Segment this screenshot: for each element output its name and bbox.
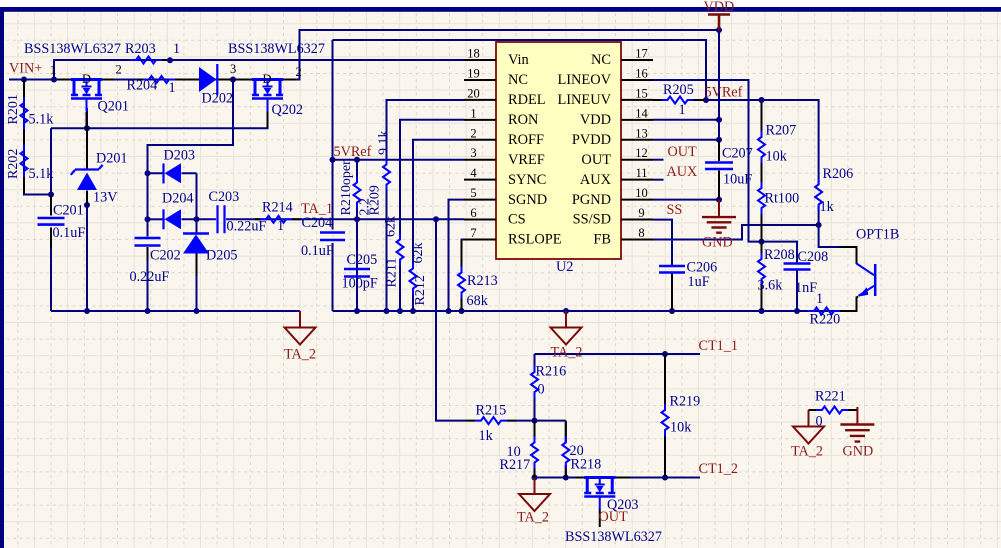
wire pin16 LINEOV to R208 junction xyxy=(653,80,762,242)
resistor R217 xyxy=(500,421,539,477)
wire pin9 SS to C206 xyxy=(653,220,672,311)
wire pin2 ROFF to R212 column xyxy=(413,140,464,311)
diode D202 xyxy=(199,64,233,107)
resistor R216 xyxy=(531,364,566,399)
svg-text:CT1_2: CT1_2 xyxy=(699,461,738,477)
svg-text:2: 2 xyxy=(470,126,476,140)
wire D204 row y=219.3 xyxy=(148,218,164,220)
transistor Q202 xyxy=(236,72,303,128)
ground TA_2 mid xyxy=(551,311,583,361)
resistor R202 xyxy=(6,145,54,194)
node D202/Q202 xyxy=(230,77,236,83)
node D204/D205/C203 xyxy=(194,216,200,222)
U2 pin 11 (AUX) right xyxy=(580,166,653,188)
svg-text:20: 20 xyxy=(467,86,480,100)
svg-text:0: 0 xyxy=(538,382,545,398)
wire pin5 SGND column xyxy=(449,200,465,311)
svg-text:OUT: OUT xyxy=(599,509,628,525)
svg-text:C201: C201 xyxy=(53,203,84,219)
node VREF/5VRef xyxy=(330,157,336,163)
capacitor C201 xyxy=(38,196,86,248)
svg-text:C203: C203 xyxy=(209,189,240,205)
svg-text:TA_2: TA_2 xyxy=(284,347,316,363)
U2 pin 19 (NC) left xyxy=(464,66,528,88)
svg-text:R221: R221 xyxy=(815,389,846,405)
svg-text:Q201: Q201 xyxy=(98,99,130,115)
svg-text:PGND: PGND xyxy=(572,192,611,208)
svg-text:VDD: VDD xyxy=(580,112,611,128)
resistor R211 xyxy=(384,216,404,288)
resistor R213 xyxy=(458,240,498,310)
wire pin7 RSLOPE / R213 column xyxy=(462,240,465,312)
node bus R213 xyxy=(459,308,465,314)
wire Q201 stem xyxy=(86,108,88,128)
svg-text:GND: GND xyxy=(843,444,874,460)
svg-text:16: 16 xyxy=(635,66,648,80)
capacitor C208 xyxy=(784,249,829,296)
svg-text:R210open: R210open xyxy=(339,158,354,216)
svg-text:1uF: 1uF xyxy=(688,274,710,290)
U2 pin 7 (RSLOPE) left xyxy=(464,226,562,248)
svg-text:SS/SD: SS/SD xyxy=(573,212,611,228)
svg-text:1k: 1k xyxy=(479,428,494,444)
svg-text:TA_2: TA_2 xyxy=(551,345,583,361)
svg-text:GND: GND xyxy=(702,235,733,251)
svg-text:D: D xyxy=(263,72,272,86)
svg-text:2: 2 xyxy=(116,63,122,77)
svg-text:3: 3 xyxy=(470,146,476,160)
svg-text:R207: R207 xyxy=(766,123,797,139)
svg-text:11: 11 xyxy=(635,166,647,180)
wire 5VRef row y=100 and R206 column to OPT1B xyxy=(706,100,857,264)
svg-text:D201: D201 xyxy=(96,151,128,167)
node bus D205 xyxy=(194,308,200,314)
svg-text:NC: NC xyxy=(591,52,611,68)
wire R210 column xyxy=(356,160,358,311)
svg-text:0.22uF: 0.22uF xyxy=(227,219,267,235)
wire pin13 PVDD row xyxy=(653,139,719,141)
resistor R207 xyxy=(758,102,796,187)
svg-text:R208: R208 xyxy=(764,247,795,263)
U2 pin 12 (OUT) right xyxy=(581,146,653,168)
ground TA_2 (R221) xyxy=(791,410,824,460)
svg-text:R205: R205 xyxy=(663,82,694,98)
svg-text:BSS138WL6327: BSS138WL6327 xyxy=(565,529,662,545)
svg-text:OUT: OUT xyxy=(668,144,697,160)
svg-text:9: 9 xyxy=(638,206,644,220)
node pin14 VDD xyxy=(716,117,722,123)
capacitor C206 xyxy=(659,260,717,311)
node 5VRef B / R207 top xyxy=(759,97,765,103)
svg-text:15: 15 xyxy=(635,86,648,100)
node bus R211 xyxy=(397,308,403,314)
diode D204 xyxy=(162,191,194,230)
resistor R219 xyxy=(662,355,701,478)
svg-text:VDD: VDD xyxy=(704,0,735,15)
wire R207/Rt100 column xyxy=(761,100,763,242)
wire Q201 gate to Q202 gate y=128.3 xyxy=(51,103,268,128)
wire pin3 VREF row y=160 xyxy=(333,159,465,161)
node PGND/C207/GND xyxy=(716,197,722,203)
svg-text:62k: 62k xyxy=(384,216,399,237)
svg-text:100pF: 100pF xyxy=(342,276,378,292)
transistor Q203 xyxy=(576,478,639,528)
svg-text:Vin: Vin xyxy=(508,52,529,68)
node bus SGND xyxy=(446,308,452,314)
svg-text:R202: R202 xyxy=(6,149,21,179)
svg-text:OPT1B: OPT1B xyxy=(856,227,899,243)
wire D201 column xyxy=(86,128,88,311)
svg-text:5.1k: 5.1k xyxy=(29,166,55,182)
wire pin14 VDD row xyxy=(653,119,719,121)
svg-text:SGND: SGND xyxy=(508,192,547,208)
capacitor C204 xyxy=(301,215,345,259)
svg-text:D205: D205 xyxy=(206,248,238,264)
wire pin20 RDEL to R209 column xyxy=(387,100,465,311)
node 5VRef A xyxy=(703,97,709,103)
node R215/R216/R217 xyxy=(532,418,538,424)
svg-text:R219: R219 xyxy=(670,394,701,410)
svg-text:U2: U2 xyxy=(556,259,573,275)
wire VIN+ rail y=79.5 xyxy=(9,30,719,80)
svg-text:RDEL: RDEL xyxy=(508,92,546,108)
diode D203 xyxy=(164,148,196,184)
capacitor C202 xyxy=(130,237,181,285)
node CT1_1/R219 xyxy=(662,351,668,357)
U2 pin 8 (FB) right xyxy=(593,226,653,248)
resistor R206 xyxy=(815,166,853,215)
wire CS net y=219.3 (C203..R214..pin6) xyxy=(182,218,465,220)
svg-text:5.1k: 5.1k xyxy=(29,112,55,128)
wire CT1_2 y=477.5 xyxy=(535,477,701,479)
svg-text:RSLOPE: RSLOPE xyxy=(508,232,562,248)
node bus D201 xyxy=(84,308,90,314)
capacitor C205 xyxy=(342,252,378,292)
wire pin8 FB to R206 bottom xyxy=(653,225,819,240)
svg-text:ROFF: ROFF xyxy=(508,132,544,148)
svg-text:7: 7 xyxy=(470,226,476,240)
node bus R210 xyxy=(354,308,360,314)
wire D204/D205 column x=196.5 xyxy=(196,173,198,311)
svg-text:12: 12 xyxy=(635,146,648,160)
resistor R201 xyxy=(6,81,54,145)
svg-text:1: 1 xyxy=(169,80,176,96)
svg-text:R203: R203 xyxy=(125,41,156,57)
wire C208 column xyxy=(762,242,798,311)
wire CS column down to R215 xyxy=(436,219,466,420)
svg-text:4: 4 xyxy=(470,166,477,180)
svg-text:1nF: 1nF xyxy=(795,280,817,296)
power VDD xyxy=(704,0,735,30)
svg-text:SS: SS xyxy=(667,202,683,218)
node bus R208 xyxy=(759,308,765,314)
svg-text:TA_2: TA_2 xyxy=(517,510,549,526)
resistor R215 xyxy=(466,403,516,445)
op-amp / controller U2 body xyxy=(496,42,621,275)
node bus C206 xyxy=(669,308,675,314)
svg-text:5VRef: 5VRef xyxy=(334,144,372,160)
U2 pin 2 (ROFF) left xyxy=(464,126,544,148)
svg-text:R206: R206 xyxy=(823,166,854,182)
svg-text:D: D xyxy=(82,72,91,86)
resistor R208 xyxy=(758,242,795,310)
U2 pin 10 (PGND) right xyxy=(572,186,653,208)
node CT1_2/R219 xyxy=(662,475,668,481)
capacitor C207 xyxy=(705,141,753,198)
node VDD top xyxy=(716,27,722,33)
resistor R204 xyxy=(127,76,200,96)
svg-text:5: 5 xyxy=(470,186,476,200)
svg-text:1: 1 xyxy=(50,63,56,77)
svg-text:2: 2 xyxy=(296,65,302,79)
wire branch to R203 / pin18 y=60 xyxy=(54,60,464,80)
U2 pin 5 (SGND) left xyxy=(464,186,547,208)
node D204 left xyxy=(145,216,151,222)
node FB/R206/OPT1B xyxy=(816,222,822,228)
svg-text:13: 13 xyxy=(635,126,648,140)
U2 pin 4 (SYNC) left xyxy=(464,166,546,188)
svg-text:OUT: OUT xyxy=(581,152,611,168)
svg-text:1: 1 xyxy=(470,106,476,120)
node R210 top xyxy=(354,157,360,163)
svg-text:68k: 68k xyxy=(467,293,489,309)
ground GND (R221) xyxy=(840,407,874,460)
svg-text:LINEOV: LINEOV xyxy=(557,72,611,88)
wire R218 column xyxy=(565,421,567,478)
svg-text:19: 19 xyxy=(467,66,480,80)
wire pin11 AUX stub xyxy=(653,179,664,181)
node bus C202 xyxy=(145,308,151,314)
svg-text:R212: R212 xyxy=(413,275,428,305)
svg-text:R215: R215 xyxy=(476,403,507,419)
svg-text:CT1_1: CT1_1 xyxy=(699,338,738,354)
svg-text:1: 1 xyxy=(679,102,686,118)
svg-text:D202: D202 xyxy=(202,91,234,107)
svg-text:1: 1 xyxy=(277,218,284,234)
svg-text:BSS138WL6327: BSS138WL6327 xyxy=(24,41,121,57)
svg-text:R209: R209 xyxy=(368,185,383,215)
svg-text:D203: D203 xyxy=(164,148,196,164)
svg-text:R216: R216 xyxy=(536,364,567,380)
node bus R209 xyxy=(384,308,390,314)
svg-text:TA_1: TA_1 xyxy=(301,201,333,217)
optocoupler OPT1B xyxy=(839,227,899,312)
wire R208 column xyxy=(761,242,763,311)
node D203 left xyxy=(145,170,151,176)
svg-text:0.1uF: 0.1uF xyxy=(301,243,334,259)
transistor Q201 xyxy=(58,72,129,128)
wire R217 column xyxy=(534,421,536,478)
svg-text:AUX: AUX xyxy=(580,172,612,188)
svg-text:14: 14 xyxy=(635,106,648,120)
wire R219 column xyxy=(664,354,666,478)
wire C201 column xyxy=(50,128,52,311)
wire pin12 OUT stub xyxy=(653,159,664,161)
resistor R221 xyxy=(809,389,858,430)
svg-text:FB: FB xyxy=(593,232,611,248)
svg-text:1: 1 xyxy=(816,291,823,307)
svg-text:R204: R204 xyxy=(127,78,158,94)
svg-text:LINEUV: LINEUV xyxy=(557,92,611,108)
svg-text:VIN+: VIN+ xyxy=(9,61,42,77)
svg-text:RON: RON xyxy=(508,112,539,128)
svg-text:R213: R213 xyxy=(467,273,498,289)
svg-text:C202: C202 xyxy=(150,248,181,264)
svg-text:R211: R211 xyxy=(385,258,400,288)
capacitor C203 xyxy=(209,189,267,235)
svg-text:Rt100: Rt100 xyxy=(765,191,800,207)
svg-text:PVDD: PVDD xyxy=(572,132,611,148)
node CS column xyxy=(433,216,439,222)
svg-text:0.22uF: 0.22uF xyxy=(130,269,170,285)
wire pin1 RON to R211 column xyxy=(400,120,464,311)
svg-text:20: 20 xyxy=(570,443,584,459)
svg-text:17: 17 xyxy=(635,47,648,61)
svg-text:R201: R201 xyxy=(6,94,21,124)
U2 pin 20 (RDEL) left xyxy=(464,86,546,108)
node Rt100/R208/C208 xyxy=(759,239,765,245)
wire R201/R202 column xyxy=(24,80,51,195)
resistor Rt100 xyxy=(758,182,799,240)
wire left ground bus y=311 xyxy=(51,310,300,312)
svg-text:8: 8 xyxy=(638,226,644,240)
wire CT1_1 y=354 xyxy=(535,353,701,355)
sheet border left xyxy=(0,7,4,548)
svg-text:10uF: 10uF xyxy=(723,172,752,188)
U2 pin 13 (PVDD) right xyxy=(572,126,653,148)
node VIN+/branch xyxy=(51,77,57,83)
resistor R205 xyxy=(653,82,704,118)
svg-text:3: 3 xyxy=(230,62,236,76)
U2 pin 9 (SS/SD) right xyxy=(573,206,653,228)
wire R216 column + CT1_1 start xyxy=(534,354,536,421)
svg-text:R214: R214 xyxy=(262,200,293,216)
svg-text:NC: NC xyxy=(508,72,528,88)
svg-text:0.1uF: 0.1uF xyxy=(53,225,86,241)
svg-text:C204: C204 xyxy=(302,215,333,231)
wire VDD column x=719 xyxy=(718,30,720,200)
U2 pin 15 (LINEUV) right xyxy=(557,86,653,108)
resistor R214 xyxy=(255,200,301,235)
node R202/C201 xyxy=(48,192,54,198)
U2 pin 17 (NC) right xyxy=(591,47,653,69)
svg-text:62k: 62k xyxy=(411,243,426,264)
svg-text:SYNC: SYNC xyxy=(508,172,546,188)
diode D205 xyxy=(183,234,238,277)
svg-text:CS: CS xyxy=(508,212,526,228)
svg-text:TA_2: TA_2 xyxy=(791,444,823,460)
wire D202 junction down to D203 row xyxy=(148,80,234,237)
wire R215 to junction xyxy=(516,420,566,422)
node VIN+/R201 xyxy=(21,77,27,83)
U2 pin 18 (Vin) left xyxy=(464,47,529,69)
wire C202 column lower xyxy=(147,247,149,311)
node Q201 gate xyxy=(84,125,90,131)
node R210/CS xyxy=(354,216,360,222)
wire main ground bus y=311 xyxy=(333,297,857,312)
svg-text:BSS138WL6327: BSS138WL6327 xyxy=(228,41,325,57)
svg-text:C207: C207 xyxy=(722,146,753,162)
U2 pin 16 (LINEOV) right xyxy=(557,66,653,88)
resistor R220 xyxy=(808,291,840,328)
svg-text:C208: C208 xyxy=(798,249,829,265)
wire 5VRef vertical + top line y=40 xyxy=(333,40,707,311)
svg-text:1: 1 xyxy=(173,41,180,57)
svg-text:VREF: VREF xyxy=(508,152,545,168)
svg-text:18: 18 xyxy=(467,47,480,61)
node bus R212 xyxy=(410,308,416,314)
svg-text:AUX: AUX xyxy=(667,164,698,180)
U2 pin 6 (CS) left xyxy=(464,206,526,228)
node bus TA_2 mid xyxy=(563,308,569,314)
resistor R212 xyxy=(410,243,429,306)
wire D203 row y=173.3 xyxy=(148,172,197,174)
svg-text:9.1k: 9.1k xyxy=(377,131,392,156)
svg-text:10k: 10k xyxy=(766,149,788,165)
ground GND (C207) xyxy=(702,200,736,251)
U2 pin 14 (VDD) right xyxy=(580,106,653,128)
svg-text:3.6k: 3.6k xyxy=(758,278,784,294)
node bus C208 xyxy=(794,308,800,314)
wire pin10 PGND row xyxy=(653,199,719,201)
svg-text:1k: 1k xyxy=(820,199,835,215)
svg-text:Q202: Q202 xyxy=(272,102,304,118)
sheet border top xyxy=(0,0,1001,7)
zener diode D201 xyxy=(71,128,128,205)
resistor R203 xyxy=(125,41,180,64)
svg-text:10: 10 xyxy=(635,186,648,200)
resistor R209 xyxy=(368,131,392,216)
node R203 right xyxy=(167,57,173,63)
svg-text:10: 10 xyxy=(507,444,521,460)
U2 pin 1 (RON) left xyxy=(464,106,539,128)
node D201 anode xyxy=(84,202,90,208)
svg-text:D204: D204 xyxy=(162,191,194,207)
resistor R218 xyxy=(562,421,601,477)
svg-text:C205: C205 xyxy=(347,252,378,268)
node pin13 PVDD xyxy=(716,137,722,143)
resistor R210 xyxy=(339,158,373,216)
node R217 bottom xyxy=(532,475,538,481)
svg-text:6: 6 xyxy=(470,206,476,220)
node R218 bottom xyxy=(563,475,569,481)
ground TA_2 left xyxy=(284,311,316,363)
ground TA_2 (R217) xyxy=(517,478,550,526)
svg-text:R220: R220 xyxy=(810,312,841,328)
svg-text:5VRef: 5VRef xyxy=(705,85,743,101)
svg-text:13V: 13V xyxy=(93,190,118,206)
U2 pin 3 (VREF) left xyxy=(464,146,545,168)
svg-text:10k: 10k xyxy=(670,420,692,436)
